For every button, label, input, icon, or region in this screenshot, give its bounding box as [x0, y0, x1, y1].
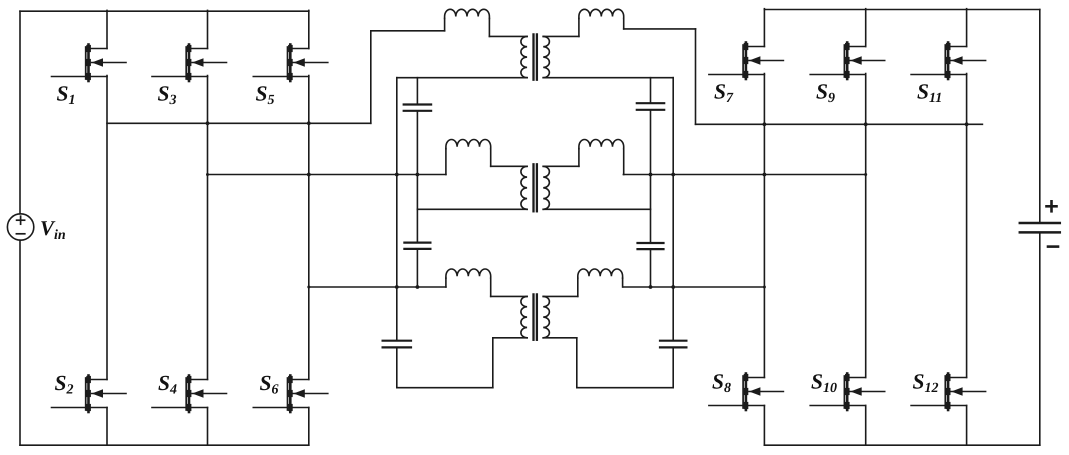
node phase A x leg2 — [206, 121, 210, 125]
wire T2 secondary bottom lead — [543, 208, 650, 210]
wire phase C left segment — [309, 286, 446, 288]
node phase A x leg11 — [965, 122, 969, 126]
wire drain riser leg3 left — [308, 10, 310, 48]
wire T1 secondary top lead — [543, 35, 579, 37]
wire outer-left bus lower — [396, 347, 398, 387]
svg-text:S12: S12 — [913, 370, 939, 397]
wire inner-right bus upper — [650, 78, 652, 104]
wire T1 secondary riser — [695, 29, 697, 124]
node phase B at leg2 — [206, 173, 209, 176]
node phase B at leg9 — [864, 173, 867, 176]
node phase B x outer-left bus — [395, 173, 399, 177]
wire phase C right segment — [623, 286, 764, 288]
wire phase A right — [696, 123, 983, 125]
transistor S1 — [52, 45, 127, 82]
node phase C x outer-right bus — [671, 285, 675, 289]
inductor Lr2a — [446, 140, 491, 149]
node phase B x inner-left bus — [416, 173, 420, 177]
transistor S5 — [253, 45, 328, 82]
wire Lr2a left lead — [445, 149, 447, 175]
wire drain riser leg1 left — [106, 10, 108, 48]
voltage source Vin — [7, 214, 33, 240]
wire phase leg 2 left — [207, 76, 209, 380]
node phase C at leg7 — [763, 286, 766, 289]
wire drain riser leg2 left — [207, 10, 209, 48]
wire T3 primary return drop — [492, 338, 494, 388]
transistor S6 — [253, 376, 328, 413]
transformer T2 — [521, 166, 527, 209]
transistor S9 — [810, 43, 885, 80]
wire left input rail (top segment) — [19, 11, 21, 214]
wire T3 secondary return — [577, 387, 673, 389]
transistor S8 — [709, 374, 784, 411]
node phase B x leg3 — [307, 173, 311, 177]
wire inner-right bus middle — [650, 110, 652, 243]
wire source drop leg2 right — [865, 406, 867, 446]
transformer T3 — [521, 296, 527, 337]
wire outer-right bus lower — [672, 347, 674, 387]
wire T1 secondary bottom lead — [543, 77, 673, 79]
wire T2 secondary top lead — [543, 165, 579, 167]
node phase B x inner-right bus — [649, 173, 653, 177]
transistor S7 — [709, 43, 784, 80]
transistor S11 — [911, 43, 986, 80]
svg-text:S1: S1 — [57, 82, 76, 109]
wire source drop leg2 left — [207, 408, 209, 446]
wire Lr1a left lead — [444, 19, 446, 31]
wire Lr1a right lead — [488, 19, 490, 37]
capacitor C inner-right-2 — [638, 242, 664, 244]
inductor Lr3b — [578, 269, 623, 278]
wire Lr1b to right bridge — [624, 28, 696, 30]
wire source drop leg3 left — [308, 408, 310, 446]
capacitor C inner-left-1 — [404, 103, 431, 105]
svg-text:S3: S3 — [158, 82, 177, 109]
wire T1 primary riser — [370, 31, 372, 124]
node phase C x inner-right bus — [649, 285, 653, 289]
svg-text:S7: S7 — [714, 80, 734, 107]
wire Lr2a right lead — [490, 149, 492, 167]
node phase C x inner-left bus — [416, 285, 420, 289]
wire Lr3a to T3 — [491, 295, 527, 297]
wire outer-left bus upper — [396, 78, 398, 341]
wire output rail upper — [1039, 10, 1041, 224]
inductor Lr1b — [579, 9, 624, 18]
capacitor C inner-left-2 — [404, 242, 430, 244]
node phase A x leg7 — [763, 122, 767, 126]
svg-text:S10: S10 — [811, 370, 837, 397]
wire phase leg 1 left — [106, 76, 108, 380]
wire Lr1a to T1 — [489, 35, 527, 37]
inductor Lr2b — [579, 140, 624, 149]
wire drain riser leg2 right — [865, 9, 867, 47]
wire phase leg 2 right — [865, 74, 867, 378]
capacitor C outer-right — [660, 340, 686, 342]
wire T1 primary bottom lead — [397, 77, 527, 79]
wire bottom rail right bridge — [764, 444, 1039, 446]
wire left input rail (bottom segment) — [19, 240, 21, 445]
inductor Lr1a — [445, 9, 490, 18]
wire Lr3a left lead — [445, 278, 447, 287]
node phase B x leg7 — [763, 173, 767, 177]
capacitor C inner-right-1 — [637, 102, 664, 104]
wire phase B left segment — [208, 174, 446, 176]
wire inner-left bus upper — [416, 78, 418, 105]
wire outer-right bus upper — [672, 78, 674, 341]
node phase A x leg3 — [307, 121, 311, 125]
wire phase A left — [107, 122, 371, 124]
wire Lr2a to T2 — [491, 165, 527, 167]
wire T1 primary top lead — [371, 30, 445, 32]
capacitor Cout — [1020, 222, 1060, 225]
wire top rail right bridge — [764, 9, 1039, 11]
wire inner-right bus lower — [650, 249, 652, 287]
wire output rail lower — [1039, 232, 1041, 445]
transistor S10 — [810, 374, 885, 411]
capacitor C outer-left — [383, 340, 411, 342]
wire phase leg 3 left — [308, 76, 310, 380]
wire inner-left bus middle — [416, 111, 418, 243]
wire Lr1b right lead — [623, 19, 625, 29]
wire drain riser leg3 right — [966, 9, 968, 47]
node phase C x outer-left bus — [395, 285, 399, 289]
wire Lr3b left lead — [577, 278, 579, 296]
transistor S2 — [52, 376, 127, 413]
svg-text:S8: S8 — [712, 370, 731, 397]
svg-text:S11: S11 — [917, 80, 942, 107]
svg-text:S2: S2 — [55, 371, 74, 398]
node phase C at leg3 — [307, 286, 310, 289]
transformer T1 — [521, 36, 527, 77]
wire T3 secondary bottom lead — [543, 337, 577, 339]
transistor S4 — [152, 376, 227, 413]
wire phase leg 3 right — [966, 74, 968, 378]
node phase A x leg9 — [864, 122, 868, 126]
wire inner-left bus lower — [416, 249, 418, 287]
wire phase leg 1 right — [763, 74, 765, 378]
wire T3 secondary top lead — [543, 295, 578, 297]
wire Lr2b right lead — [623, 149, 625, 175]
wire bottom rail left bridge — [20, 444, 309, 446]
svg-text:S5: S5 — [256, 82, 275, 109]
wire T3 secondary return drop — [576, 338, 578, 388]
svg-text:S4: S4 — [158, 371, 177, 398]
wire phase B right segment — [623, 174, 865, 176]
wire T2 primary bottom lead — [417, 208, 527, 210]
wire Lr1b left lead — [578, 19, 580, 37]
svg-text:Vin: Vin — [40, 216, 66, 243]
svg-text:S9: S9 — [816, 80, 835, 107]
inductor Lr3a — [446, 269, 491, 278]
wire source drop leg1 right — [763, 406, 765, 446]
svg-text:S6: S6 — [260, 371, 279, 398]
transistor S12 — [911, 374, 986, 411]
wire T3 primary bottom lead — [493, 337, 527, 339]
wire Lr3a right lead — [490, 278, 492, 296]
wire Lr3b right lead — [622, 278, 624, 287]
wire Lr2b left lead — [578, 149, 580, 167]
wire drain riser leg1 right — [763, 9, 765, 47]
wire source drop leg3 right — [966, 406, 968, 446]
wire top rail left bridge — [20, 10, 309, 12]
wire source drop leg1 left — [106, 408, 108, 446]
transistor S3 — [152, 45, 227, 82]
node phase B x outer-right bus — [671, 173, 675, 177]
wire T3 primary return — [397, 387, 493, 389]
